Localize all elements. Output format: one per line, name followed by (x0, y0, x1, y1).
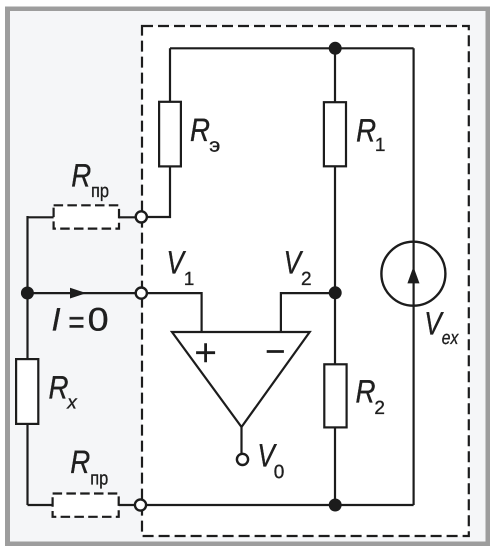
svg-text:I: I (52, 302, 61, 338)
svg-text:2: 2 (301, 269, 312, 290)
wire R_e branch (141, 48, 170, 217)
current arrow I=0 (70, 288, 86, 299)
svg-text:0: 0 (88, 302, 109, 338)
junction dot bottom (329, 499, 342, 512)
resistor R2 (324, 364, 346, 427)
op-amp plus input mark (196, 343, 215, 362)
svg-text:R: R (70, 444, 90, 480)
wire left vertical (26, 216, 28, 505)
wire top horizontal (170, 47, 414, 49)
resistor R_e (159, 102, 181, 167)
junction dot V2 (329, 286, 342, 299)
resistor Rx (16, 359, 38, 424)
node circle V0 output (237, 454, 248, 465)
svg-text:2: 2 (374, 398, 385, 419)
V_ex source arrow (407, 267, 419, 284)
junction dot top (329, 42, 342, 55)
svg-text:R: R (49, 370, 69, 406)
op-amp minus input mark (267, 350, 284, 353)
resistor R1 (324, 102, 346, 166)
svg-text:=: = (68, 304, 85, 340)
wire op-amp output (240, 427, 242, 454)
wire V_ex branch (413, 48, 415, 505)
svg-text:R: R (71, 157, 91, 193)
dashed boundary box (white region) (142, 26, 469, 536)
resistor Rpr bottom (dashed) (53, 494, 119, 517)
wire top Rpr lead (28, 216, 142, 218)
op-amp U1 triangle (172, 332, 310, 427)
svg-text:ex: ex (442, 328, 460, 349)
svg-text:0: 0 (274, 462, 285, 483)
node circle V1 (136, 288, 147, 299)
wire I=0 horizontal (28, 292, 142, 294)
junction dot left (21, 287, 34, 300)
wire V1 input (141, 293, 201, 332)
svg-text:пр: пр (90, 468, 108, 489)
svg-text:пр: пр (91, 181, 109, 202)
svg-text:э: э (209, 136, 220, 157)
voltage source V_ex circle (381, 242, 445, 306)
svg-text:1: 1 (375, 135, 386, 156)
resistor Rpr top (dashed) (54, 205, 119, 228)
svg-text:R: R (356, 113, 376, 149)
wire middle branch R1/R2 (334, 48, 336, 505)
svg-text:1: 1 (184, 269, 195, 290)
svg-text:R: R (356, 374, 376, 410)
svg-text:x: x (66, 393, 78, 414)
svg-text:R: R (190, 112, 210, 148)
wire bottom horizontal (28, 504, 414, 506)
wire V2 input (281, 293, 335, 332)
node circle top Rpr (136, 211, 147, 222)
node circle bottom Rpr (135, 499, 146, 510)
